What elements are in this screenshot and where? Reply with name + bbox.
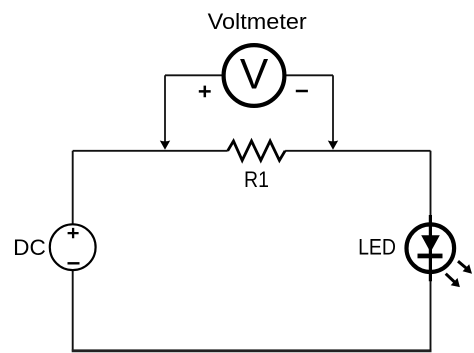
wire voltmeter right drop xyxy=(332,75,334,141)
wire right side xyxy=(430,151,432,351)
svg-text:V: V xyxy=(240,52,269,99)
wire top-right segment xyxy=(285,150,430,152)
svg-text:Voltmeter: Voltmeter xyxy=(208,9,307,34)
label plus (voltmeter) xyxy=(199,86,211,98)
voltmeter V1 xyxy=(224,45,285,106)
wire left side xyxy=(72,151,74,351)
label minus (voltmeter) xyxy=(296,90,308,93)
arrowhead left probe xyxy=(160,141,170,150)
resistor R1 xyxy=(228,141,285,160)
dc source B1 xyxy=(50,224,96,270)
wire voltmeter horizontal xyxy=(165,74,333,76)
svg-text:R1: R1 xyxy=(244,167,269,192)
led light arrow 2 xyxy=(446,274,460,287)
svg-text:LED: LED xyxy=(358,235,396,260)
led D1 xyxy=(407,215,455,281)
wire bottom xyxy=(72,349,432,352)
svg-text:DC: DC xyxy=(13,235,46,260)
led light arrow 1 xyxy=(458,261,472,274)
wire top-left segment xyxy=(73,150,228,152)
wire voltmeter left drop xyxy=(164,75,166,141)
arrowhead right probe xyxy=(328,141,338,150)
